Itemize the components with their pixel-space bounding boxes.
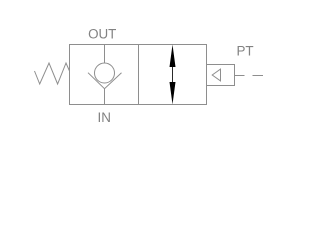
svg-text:IN: IN [97,110,110,125]
wire from OUT port to check valve ball [104,45,106,64]
flow arrow head up [170,45,176,67]
envelope cell divider [138,45,140,105]
valve body envelope [70,45,207,105]
wire from seat to IN port [104,89,106,105]
flow arrow head down [170,82,176,104]
pilot box [207,65,235,86]
spring [35,63,70,84]
pilot triangle [212,69,220,81]
flow arrow shaft [172,64,174,85]
pilot line dash 2 [253,75,264,77]
pilot line dash 1 [235,75,245,77]
check valve seat [88,73,122,89]
check valve ball [95,63,115,83]
svg-text:OUT: OUT [88,27,116,42]
svg-text:PT: PT [236,43,253,58]
